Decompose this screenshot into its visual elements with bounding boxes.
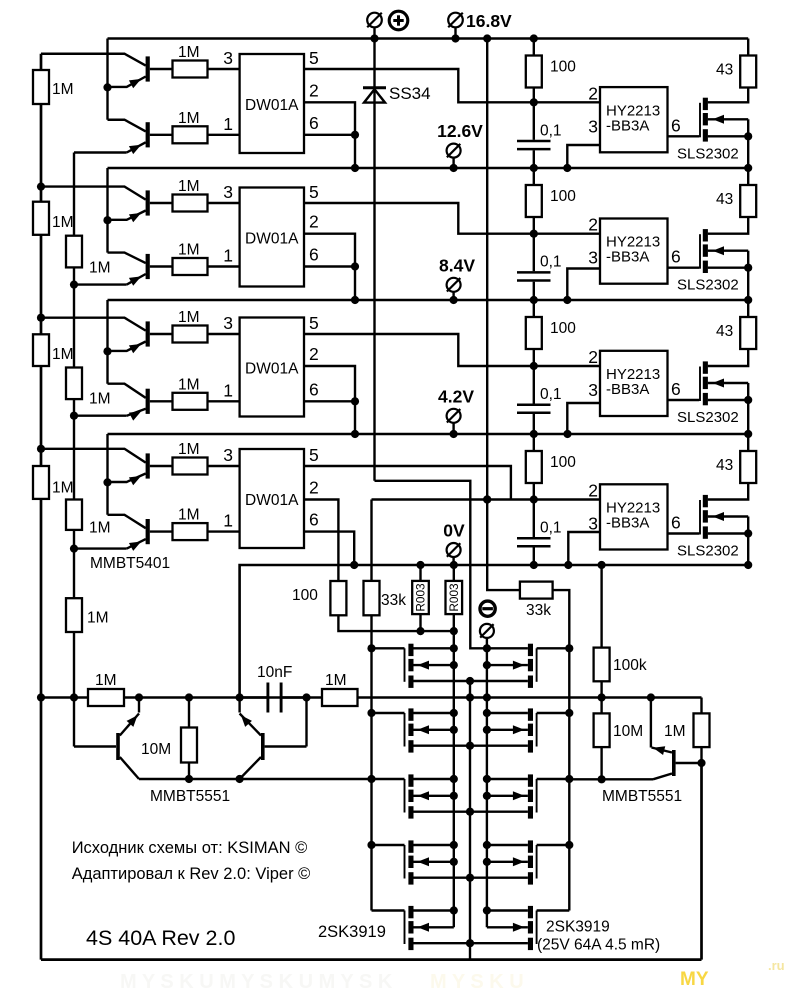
svg-text:SLS2302: SLS2302 [677,145,739,162]
svg-text:3: 3 [223,48,233,68]
label 1M base-upper row 1 [178,44,200,61]
watermark MY [680,969,709,990]
transistor M8 2SK3919 right [487,708,569,752]
resistor 1M base-upper row 1 [173,61,208,78]
svg-text:-BB3A: -BB3A [606,249,649,266]
svg-text:1M: 1M [178,44,200,61]
label 4.2V [438,386,474,406]
svg-text:6: 6 [309,245,319,265]
label 10M right [613,723,643,740]
svg-text:1M: 1M [89,391,111,408]
svg-text:Исходник схемы от: KSIMAN ©: Исходник схемы от: KSIMAN © [72,839,308,857]
wire pin3 row 3 [208,333,240,335]
label 0,1 row 1 [540,122,562,139]
svg-text:1M: 1M [178,507,200,524]
label 1M ladder-A row 3 [52,346,74,363]
svg-text:3: 3 [223,182,233,202]
label 100 balance row 4 [550,454,576,471]
label 1M base-upper row 4 [178,441,200,458]
label 1M base-lower row 4 [178,507,200,524]
svg-text:MMBT5401: MMBT5401 [90,555,170,572]
label 0,1 row 2 [540,254,562,271]
svg-text:6: 6 [671,513,681,533]
op-amp U6 HY2213-BB3A [600,219,668,284]
svg-text:43: 43 [716,323,733,340]
svg-text:1M: 1M [87,610,109,627]
label 0,1 row 4 [540,520,562,537]
resistor 1M right [694,698,710,764]
wire rail 0V [240,561,753,698]
resistor 100 balance row 3 [526,300,542,366]
label pin 1 row 4 [223,511,233,531]
wire pin3 row 4 [208,465,240,467]
label HY pin 3 row 3 [588,380,598,400]
resistor 43 row 1 [740,39,756,88]
wire charge-gate pulldown (collector line) [569,775,653,783]
svg-text:16.8V: 16.8V [466,11,512,31]
svg-text:43: 43 [716,191,733,208]
transistor M1 SLS2302 [700,88,752,169]
svg-text:2: 2 [588,83,598,103]
resistor 100k [594,565,610,698]
wire Q7 emitter to Q8 collector [106,449,108,515]
svg-text:2: 2 [588,481,598,501]
svg-text:MMBT5551: MMBT5551 [602,788,682,805]
resistor 1M bottom-left [88,689,124,706]
svg-text:2: 2 [309,212,319,232]
resistor 1M ladder-A row 3 [33,334,49,366]
label 10M left [141,741,171,758]
svg-text:3: 3 [588,380,598,400]
svg-text:2: 2 [309,344,319,364]
op-amp U7 HY2213-BB3A [600,351,668,416]
transistor M6 2SK3919 right [487,644,569,688]
node emitter junction row 2 [103,216,111,224]
svg-text:0,1: 0,1 [540,122,562,139]
wire rail3 left corner drop [106,300,108,318]
resistor R003 shunt 1 [412,565,429,631]
wire pin5 route row 2 [304,203,600,238]
label title 4S 40A Rev 2.0 [86,926,235,950]
svg-text:10M: 10M [141,741,171,758]
label SLS2302 row 4 [677,543,739,560]
svg-text:1M: 1M [664,723,686,740]
resistor 1M ladder-A row 1 [33,70,49,104]
svg-text:3: 3 [588,514,598,534]
svg-text:5: 5 [309,313,319,333]
svg-text:1M: 1M [178,110,200,127]
transistor M13 2SK3919 left [372,906,528,950]
wire ladder tap row 3 [41,317,108,319]
op-amp U1 DW01A [240,54,304,153]
label 43 row 4 [716,457,733,474]
label 43 row 3 [716,323,733,340]
transistor M10 2SK3919 right [487,774,569,818]
wire SS34 anode jog to P- node [375,481,487,649]
label HY pin 6 row 2 [671,247,681,267]
wire rail2 left corner drop [106,168,108,187]
wire left border / resistor-chain trunk (x=41) [40,54,43,960]
wire Q2 emitter to divider [74,151,127,153]
label pin 5 row 2 [309,182,319,202]
label R003 shunt 2 [447,583,461,612]
svg-text:10M: 10M [613,723,643,740]
svg-text:DW01A: DW01A [245,231,299,248]
wire pin2/pin6 junction row 2 [304,234,359,300]
svg-text:1M: 1M [178,376,200,393]
svg-text:1M: 1M [325,672,347,689]
svg-text:4.2V: 4.2V [438,386,474,406]
wire Q4 emitter to divider [74,283,127,285]
wire 33k to charge-gate bus [553,590,570,648]
svg-text:1M: 1M [52,214,74,231]
wire rail 12.6V [108,164,753,172]
label 100 sense row 4 [292,587,318,604]
resistor 1M base-upper row 4 [173,458,208,475]
transistor Q8 MMBT5401 lower [108,515,173,551]
transistor M14 2SK3919 right [487,906,569,950]
svg-text:100k: 100k [613,657,647,674]
label HY pin 3 row 4 [588,514,598,534]
svg-text:100: 100 [550,59,576,76]
wire HY pin6 row 4 [668,532,700,534]
label pin 2 row 3 [309,344,319,364]
resistor 1M base-lower row 1 [173,126,208,143]
resistor 1M base-lower row 4 [173,523,208,540]
label DW01A row 1 [245,97,299,114]
resistor 100 balance row 2 [526,168,542,234]
svg-text:1M: 1M [178,242,200,259]
svg-text:43: 43 [716,62,733,79]
op-amp U4 DW01A [240,449,304,548]
label HY pin 2 row 1 [588,83,598,103]
label HY2213 row 4 [606,500,660,532]
label HY2213 row 1 [606,102,660,134]
svg-text:10nF: 10nF [257,664,292,681]
label 1M base-upper row 2 [178,178,200,195]
svg-text:2: 2 [588,215,598,235]
svg-text:0,1: 0,1 [540,386,562,403]
svg-text:2SK3919: 2SK3919 [318,923,386,941]
svg-text:3: 3 [588,248,598,268]
terminal 8.4V connector [447,278,461,300]
wire pin5 row 4 [304,466,511,500]
resistor 1M base-upper row 3 [173,326,208,343]
capacitor 0,1 row 4 [517,500,551,566]
label 1M divider bottom [87,610,109,627]
wire pin5 route row 1 [304,69,600,106]
wire HY pin6 row 1 [668,135,700,137]
transistor Q6 MMBT5401 lower [108,384,173,421]
resistor 100 sense row 4 [330,581,346,615]
transistor Q4 MMBT5401 lower [108,253,173,286]
wire pin5 route row 3 [304,334,600,370]
label 0V [443,521,465,541]
svg-text:-BB3A: -BB3A [606,515,649,532]
wire HY pin3 row 1 [567,145,600,168]
terminal 0V connector [447,543,461,565]
resistor 1M divider row 4 [66,500,82,530]
label HY pin 3 row 1 [588,116,598,136]
svg-text:1M: 1M [89,260,111,277]
label HY pin 6 row 3 [671,379,681,399]
wire HY pin3 row 2 [567,269,600,301]
label DW01A row 2 [245,231,299,248]
resistor 43 row 2 [740,168,756,217]
label SLS2302 row 3 [677,409,739,426]
label DW01A row 4 [245,492,299,509]
label 100k [613,657,647,674]
label pin 3 row 4 [223,445,233,465]
wire HY pin6 row 3 [668,399,700,401]
transistor Q2 MMBT5401 lower [108,120,173,154]
label 1M bottom-left [95,672,117,689]
label 8.4V [439,255,475,275]
op-amp U8 HY2213-BB3A [600,484,668,549]
wire pin2/pin6 junction row 3 [304,366,359,434]
svg-text:2: 2 [309,478,319,498]
wire discharge-gate pulldown (collector line) [139,775,372,783]
svg-text:33k: 33k [381,592,406,609]
wire rail 16.8V (top) [108,34,749,42]
transistor Q11 MMBT5551 [651,698,706,780]
label 1M base-lower row 3 [178,376,200,393]
label pin 2 row 2 [309,212,319,232]
label R003 shunt 1 [414,583,428,612]
label MMBT5401 [90,555,170,572]
resistor 1M bottom-mid [322,689,358,706]
svg-text:43: 43 [716,457,733,474]
svg-text:MY: MY [680,969,709,990]
capacitor 0,1 row 3 [517,366,551,434]
resistor 1M divider row 3 [66,368,82,400]
wire pin1 row 2 [208,265,240,267]
op-amp U3 DW01A [240,318,304,417]
label 10nF [257,664,292,681]
label pin 3 row 1 [223,48,233,68]
label pin 2 row 4 [309,478,319,498]
label HY pin 2 row 3 [588,347,598,367]
label credit line 2 [72,865,311,883]
resistor 10M left [181,698,197,780]
label pin 2 row 1 [309,80,319,100]
diode SS34 [363,39,386,481]
label credit line 1 [72,839,308,857]
svg-text:1M: 1M [89,520,111,537]
label HY pin 3 row 2 [588,248,598,268]
label 43 row 1 [716,62,733,79]
svg-text:4S 40A Rev 2.0: 4S 40A Rev 2.0 [86,926,235,950]
svg-text:1M: 1M [178,178,200,195]
svg-text:DW01A: DW01A [245,361,299,378]
svg-text:3: 3 [223,313,233,333]
transistor M11 2SK3919 left [372,840,528,884]
capacitor 10nF [240,683,307,713]
resistor 1M ladder-A row 2 [33,202,49,235]
wire HY pin3 row 4 [568,532,600,565]
node emitter junction row 1 [103,83,111,91]
wire HY pin3 row 3 [567,403,600,434]
wire sense bus (rail1 to 33k) [483,39,520,591]
transistor M5 2SK3919 left [372,644,528,688]
svg-text:1M: 1M [52,346,74,363]
svg-text:R003: R003 [447,583,461,612]
wire charge-gate bus [565,644,573,910]
resistor 1M ladder-A row 4 [33,466,49,499]
svg-text:100: 100 [550,320,576,337]
label 2SK3919 left [318,923,386,941]
wire right border segment to MMBT5551 base node [700,763,703,960]
terminal 12.6V connector [447,144,461,168]
svg-text:1: 1 [223,380,233,400]
svg-text:100: 100 [292,587,318,604]
wire HY pin6 row 2 [668,267,700,269]
resistor 1M base-lower row 2 [173,258,208,275]
label 1M right [664,723,686,740]
transistor M3 SLS2302 [700,349,752,434]
wire pin3 row 1 [208,68,240,70]
terminal P+ connector [367,13,382,39]
transistor M9 2SK3919 left [372,774,528,818]
node ladder tap row 4 [37,445,45,453]
resistor 43 row 4 [740,434,756,483]
wire pin1 row 1 [208,134,240,136]
label 1M base-lower row 1 [178,110,200,127]
svg-text:1M: 1M [178,309,200,326]
transistor Q5 MMBT5401 upper [108,318,173,354]
label DW01A row 3 [245,361,299,378]
node ladder tap row 3 [37,314,45,322]
svg-text:SS34: SS34 [389,84,431,103]
wire pin2 row 4 to 100R [304,500,338,582]
symbol plus [389,11,408,30]
label 33k vertical [381,592,406,609]
label MMBT5551 right [602,788,682,805]
wire source center bus [466,677,474,960]
label HY2213 row 3 [606,366,660,398]
transistor M12 2SK3919 right [487,840,569,884]
svg-text:6: 6 [671,115,681,135]
svg-text:.ru: .ru [768,958,785,973]
watermark ru [768,958,785,973]
wire Q1 emitter to Q2 collector [106,54,108,120]
label pin 6 row 1 [309,113,319,133]
label SS34 [389,84,431,103]
svg-text:Адаптировал к Rev 2.0: Viper ©: Адаптировал к Rev 2.0: Viper © [72,865,311,883]
label pin 1 row 3 [223,380,233,400]
wire rail4 left corner drop [106,434,108,449]
resistor 1M base-upper row 2 [173,195,208,212]
svg-text:1M: 1M [178,441,200,458]
svg-text:M Y S K U: M Y S K U [430,971,524,993]
svg-text:6: 6 [309,113,319,133]
label pin 5 row 4 [309,445,319,465]
svg-text:12.6V: 12.6V [437,121,483,141]
label 1M ladder-A row 2 [52,214,74,231]
resistor 1M divider row 2 [66,236,82,268]
wire divider trunk x74 [70,153,78,702]
label pin 3 row 3 [223,313,233,333]
label 1M base-lower row 2 [178,242,200,259]
wire Q6 emitter to divider [74,415,127,417]
label pin 3 row 2 [223,182,233,202]
label HY2213 row 2 [606,234,660,266]
label HY pin 6 row 4 [671,513,681,533]
label 43 row 2 [716,191,733,208]
svg-text:SLS2302: SLS2302 [677,409,739,426]
label pin 6 row 3 [309,379,319,399]
label SLS2302 row 1 [677,145,739,162]
resistor 1M divider bottom [66,598,82,632]
wire bottom border [41,958,702,961]
wire Q3 emitter to Q4 collector [106,187,108,253]
transistor Q3 MMBT5401 upper [108,187,173,223]
svg-text:5: 5 [309,445,319,465]
svg-text:1: 1 [223,114,233,134]
transistor M4 SLS2302 [700,483,752,565]
label HY pin 6 row 1 [671,115,681,135]
wire VM line y697 [37,693,702,701]
wire Q5 emitter to Q6 collector [106,318,108,384]
wire balance node row 4 [372,495,601,503]
svg-text:100: 100 [550,454,576,471]
svg-text:(25V 64A 4.5 mR): (25V 64A 4.5 mR) [537,937,660,954]
wire pin2/pin6 junction row 1 [304,102,359,168]
node emitter junction row 3 [103,347,111,355]
label 1M ladder-A row 1 [52,81,74,98]
label MMBT5551 left [150,788,230,805]
svg-text:6: 6 [309,379,319,399]
wire pin1 row 3 [208,400,240,402]
transistor Q10 MMBT5551 [240,698,307,780]
svg-text:DW01A: DW01A [245,97,299,114]
wire ladder tap row 1 [41,53,108,55]
svg-text:5: 5 [309,48,319,68]
label 1M ladder-A row 4 [52,480,74,497]
label 1M divider row 3 [89,391,111,408]
wire 100R to shunt bottoms [338,615,458,635]
wire Q8 emitter to divider [74,547,127,549]
svg-text:-BB3A: -BB3A [606,381,649,398]
wire pin6 row 4 [304,532,354,565]
label 100 balance row 1 [550,59,576,76]
wire pin1 row 4 [208,530,240,532]
label 100 balance row 3 [550,320,576,337]
label 16.8V [466,11,512,31]
svg-text:0V: 0V [443,521,465,541]
label 1M bottom-mid [325,672,347,689]
node ladder tap row 2 [37,183,45,191]
svg-text:MMBT5551: MMBT5551 [150,788,230,805]
svg-text:1M: 1M [95,672,117,689]
terminal 16.8V connector [448,13,463,39]
wire rail1 left corner drop [106,39,108,54]
capacitor 0,1 row 1 [517,102,551,168]
svg-text:2: 2 [588,347,598,367]
label 33k (horizontal resistor) [526,602,551,619]
transistor M7 2SK3919 left [372,708,528,752]
label 100 balance row 2 [550,188,576,205]
resistor 100 balance row 4 [526,434,542,500]
svg-text:6: 6 [671,247,681,267]
svg-text:3: 3 [223,445,233,465]
wire rail 8.4V [108,296,753,304]
node emitter junction row 4 [103,478,111,486]
wire discharge-gate bus [367,615,375,910]
watermark ghost row [120,971,524,993]
terminal P- connector [480,624,494,648]
label pin 6 row 4 [309,510,319,530]
